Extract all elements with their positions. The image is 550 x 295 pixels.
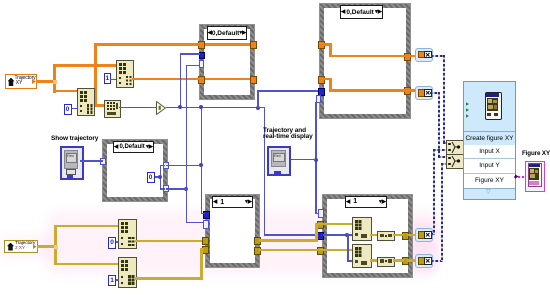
wire build1 out [370, 234, 377, 237]
case E tunnel right 2 [402, 257, 409, 265]
constant 0 (bottom node1) [108, 237, 116, 249]
conversion node 4 [415, 254, 433, 268]
case B tunnel left top [318, 41, 325, 49]
select2 output arrow [463, 160, 467, 165]
junction dot [184, 187, 188, 191]
wire upper node out to case A [132, 78, 200, 81]
junction dot (display control joins) [314, 158, 318, 162]
wire Show trajectory to case C [80, 160, 103, 162]
wire triangle out (blue main horizontal) [166, 107, 259, 109]
case A tunnel right top [250, 41, 257, 49]
wire from Trajectory 2 XY [37, 245, 56, 248]
case E khaki tunnel left 2 [317, 247, 324, 255]
bottom index array node 1 [118, 219, 137, 249]
empty-array node [104, 100, 121, 118]
case E label [345, 196, 387, 208]
wire case E out2 to conv4 [407, 259, 416, 262]
background tint band bottom (jpeg chroma) [45, 210, 440, 276]
case C hollow tunnel right bottom [163, 185, 169, 192]
row Figure XY [464, 174, 515, 189]
case E khaki tunnel left 1 [317, 221, 324, 229]
wire node2 out, jog up into case D tunnel2 [135, 277, 203, 280]
boolean control Trajectory and real-time display [267, 146, 291, 176]
green connector arrows [466, 102, 470, 106]
wire trunk1 vertical [53, 80, 57, 84]
wire case C out1 to net [166, 165, 202, 167]
Figure XY indicator [525, 161, 545, 192]
wire up to case B dark tunnel [257, 90, 259, 108]
index array node 1 (upper) [116, 60, 134, 88]
wire case A hollow tunnel feed [186, 65, 200, 67]
case A tunnel left top [198, 41, 205, 49]
bottom index array node 2 [118, 257, 137, 288]
wire case B hollow tunnel down to case E hollow tunnel [315, 102, 317, 214]
wire case D out1 to case E (jog up) [259, 239, 318, 242]
wire node1 out to case D [135, 240, 202, 243]
khaki trunk vertical [54, 245, 58, 249]
case D khaki tunnel left 2 [202, 246, 209, 254]
bottom strip [486, 190, 493, 195]
Figure XY indicator label [522, 150, 550, 157]
select1 output arrow [463, 146, 467, 151]
navy wire conv3 out [431, 233, 435, 235]
wire jog right and down to case E dark tunnel [257, 107, 265, 109]
case structure C "0,Default" mid-left [103, 140, 167, 201]
vertical into case D dark tunnel [201, 107, 203, 214]
wire const1 to node [110, 79, 116, 81]
case structure E "1" bottom-right [323, 195, 412, 277]
case A dark-blue tunnel left [199, 52, 205, 59]
junction dot [199, 105, 203, 109]
case B tunnel left bottom [318, 76, 325, 84]
small bundle node 1 [377, 231, 395, 241]
control Trajectory XY [5, 74, 37, 89]
junction dot [199, 163, 203, 167]
conversion node 3 [415, 228, 433, 242]
constant 0 (lower index) [64, 104, 72, 115]
subVI Create figure XY (expandable node) [463, 81, 516, 200]
wire top run to case A [94, 43, 200, 46]
case A hollow tunnel left [199, 60, 204, 68]
wire build2 out [370, 259, 377, 262]
small bundle node 2 [377, 257, 395, 267]
wire bundle2 to tunnel [393, 259, 404, 262]
case D khaki tunnel right 2 [254, 247, 261, 255]
wire display control to vertical net [291, 159, 316, 161]
wire case B out1 to conv1 [404, 55, 416, 58]
control Trajectory 2 XY [4, 240, 38, 253]
case C selector tunnel left [100, 158, 106, 165]
case A wire row2 (through) [202, 78, 250, 81]
wire case E out1 to conv3 [407, 234, 416, 237]
wire const to node1 [116, 241, 119, 243]
case D dark-blue tunnel left [203, 211, 210, 219]
label Show trajectory [51, 135, 98, 142]
wire empty-array out (blue) [119, 107, 156, 109]
case A wire row1 (through) [202, 43, 250, 46]
case D hollow tunnel left [203, 220, 209, 229]
navy wire conv2 out [430, 92, 440, 94]
khaki branch to bottom node 2 [54, 263, 118, 266]
case E hollow tunnel left [318, 209, 324, 218]
name row [464, 131, 515, 146]
case structure A "0,Default" top-center [200, 25, 254, 99]
case E dark-blue tunnel left [317, 232, 324, 240]
case C internal wires [155, 176, 161, 178]
navy wire conv4 out [431, 260, 443, 262]
wire branch to lower index node [53, 90, 77, 93]
conversion node 1 (array to matrix) [415, 48, 433, 62]
junction dot [256, 106, 260, 110]
constant 1 (upper index) [104, 73, 112, 84]
wire bundle1 to tunnel [393, 234, 404, 237]
case structure B "0,Default" top-right [320, 4, 410, 118]
case D khaki tunnel right 1 [254, 237, 261, 245]
wire trunk2 vertical (lower node out up to case A) [94, 43, 97, 107]
case C constant 0 [147, 172, 155, 183]
constant 1 (bottom node2) [108, 275, 116, 287]
case structure D "1" bottom-left [206, 195, 259, 267]
wire lower node out to array-empty node [92, 104, 106, 107]
navy wire conv1 out [431, 55, 445, 57]
case B wire jog row1 [324, 43, 332, 46]
case E blue feed to build nodes [323, 234, 352, 236]
wire const to node2 [116, 279, 119, 281]
junction dot [178, 105, 182, 109]
case E tunnel right 1 [402, 232, 409, 240]
case D khaki tunnel left 1 [202, 237, 209, 245]
case A tunnel right bottom [250, 76, 257, 84]
boolean control Show trajectory [60, 146, 84, 180]
case E build node 2 [352, 244, 372, 268]
wire case C out2 [166, 188, 187, 190]
case B label [340, 5, 383, 19]
wire case B out2 to conv2 [404, 89, 416, 92]
row Input X [464, 145, 515, 160]
wire case D out2 straight to case E [259, 249, 352, 252]
case B wire jog row2 [324, 78, 332, 81]
khaki branch to bottom node 1 [54, 225, 118, 228]
not/boolean triangle node [156, 101, 166, 115]
case B dark-blue tunnel left [318, 88, 325, 96]
case B tunnel right bottom [404, 87, 411, 95]
wire to case D hollow tunnel [186, 222, 204, 224]
case E build node 1 [352, 217, 372, 241]
case A label [207, 26, 247, 40]
case A tunnel left bottom [198, 76, 205, 84]
wire branch to upper index node [53, 64, 116, 67]
row Input Y [464, 159, 515, 174]
wire from Trajectory XY [36, 80, 55, 83]
case B hollow tunnel left [316, 95, 321, 103]
case D label [212, 196, 253, 208]
case C hollow tunnel right top [163, 162, 169, 169]
subVI icon [485, 92, 502, 120]
wire const0 to node [71, 108, 77, 110]
select node 2 [446, 154, 464, 169]
label Trajectory and real-time display [263, 128, 313, 142]
wire case A dark tunnel feed [180, 53, 200, 55]
index array node 2 (lower) [77, 88, 95, 116]
conversion node 2 [415, 86, 433, 100]
case B tunnel right top [404, 53, 411, 61]
case C label [113, 141, 154, 153]
select node 1 [446, 140, 464, 155]
wire subVI to Figure XY indicator (magenta dashed) [514, 176, 525, 178]
